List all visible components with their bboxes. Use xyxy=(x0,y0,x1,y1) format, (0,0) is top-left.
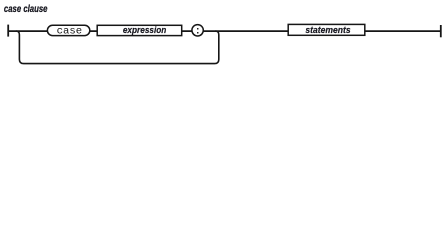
svg-text:case clause: case clause xyxy=(4,4,48,15)
svg-text::: : xyxy=(195,27,201,38)
svg-text:statements: statements xyxy=(305,25,350,36)
svg-text:case: case xyxy=(57,27,83,38)
svg-text:expression: expression xyxy=(123,25,167,36)
